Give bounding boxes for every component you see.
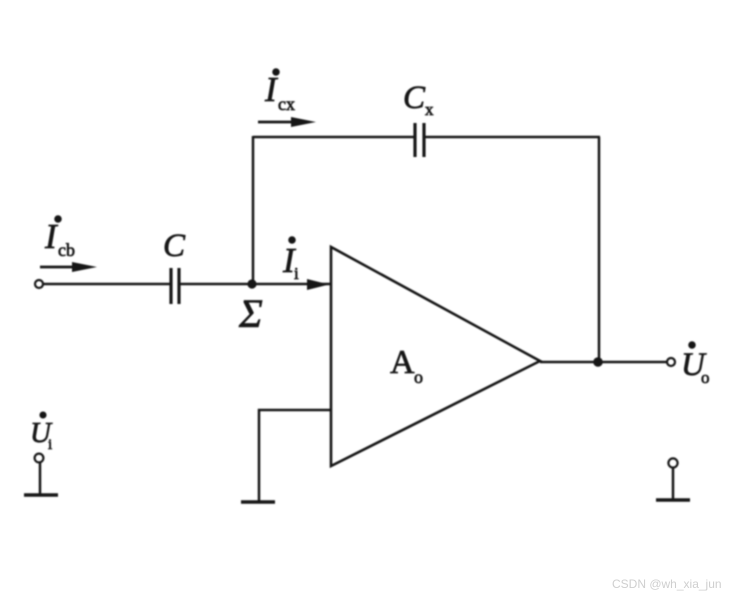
svg-text:cb: cb xyxy=(58,240,75,260)
label Uo xyxy=(681,342,710,387)
wire capacitor C to op-amp input xyxy=(180,283,330,286)
label Cx xyxy=(403,80,434,119)
svg-text:Σ: Σ xyxy=(238,291,263,336)
svg-text:i: i xyxy=(48,437,52,453)
svg-text:C: C xyxy=(403,80,426,116)
watermark xyxy=(612,577,722,591)
node Ui terminal xyxy=(24,454,58,495)
wire feedback top right xyxy=(425,136,600,139)
svg-text:A: A xyxy=(390,344,415,381)
node input terminal xyxy=(35,280,43,288)
wire input to capacitor C xyxy=(43,283,170,286)
svg-text:i: i xyxy=(294,264,299,283)
wire Icx current arrow xyxy=(258,117,316,127)
label Icb xyxy=(44,216,75,260)
capacitor Cx xyxy=(415,123,424,157)
label Ao xyxy=(390,344,423,387)
wire feedback top left xyxy=(253,136,414,139)
wire feedback vertical right xyxy=(598,137,601,363)
node output ground terminal xyxy=(656,458,690,500)
label Icx xyxy=(264,69,295,114)
svg-text:I: I xyxy=(264,70,279,109)
ground xyxy=(241,500,275,504)
svg-text:o: o xyxy=(701,368,710,387)
wire Icb current arrow xyxy=(40,262,97,272)
svg-text:cx: cx xyxy=(278,94,295,114)
node sum junction xyxy=(247,279,256,288)
label Ui xyxy=(30,412,53,453)
svg-text:C: C xyxy=(163,228,186,264)
wire feedback vertical left xyxy=(252,136,255,284)
wire op-amp output xyxy=(540,361,667,364)
wire Ii current arrowhead xyxy=(307,279,329,290)
wire non-inverting input xyxy=(259,410,330,501)
node output junction xyxy=(593,357,603,367)
capacitor C xyxy=(171,268,179,304)
op-amp U1 xyxy=(331,247,540,466)
label Ii xyxy=(282,237,299,283)
svg-text:x: x xyxy=(425,100,434,119)
node output terminal xyxy=(667,358,675,366)
svg-text:I: I xyxy=(44,217,59,256)
svg-text:o: o xyxy=(414,367,423,387)
